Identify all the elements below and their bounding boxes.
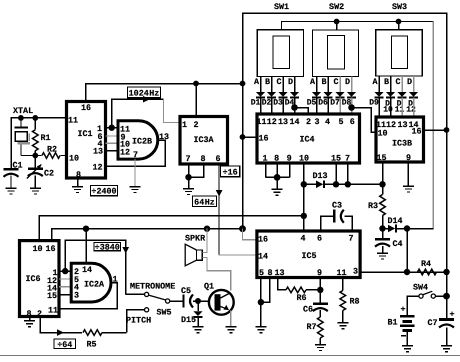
wire IC5 pin3 line [360,271,446,273]
svg-text:D5: D5 [307,99,317,108]
wire SW5 pole to C5 [170,300,183,302]
junction dot rail IC3A pin2 [193,81,199,87]
IC4 top pin6 label [350,117,355,127]
wire IC6 pin1 to IC2A pin2 [59,270,71,272]
capacitor C7 [427,310,454,346]
svg-text:÷3840: ÷3840 [95,243,120,253]
counter IC6 box [20,241,60,317]
terminal A of SW2 [310,77,317,93]
wire speaker top terminal [202,229,207,253]
svg-text:D14: D14 [388,216,403,226]
diode D1 [251,92,265,108]
wire IC3B pin15 down [382,162,384,195]
IC5 name [301,251,316,261]
wire IC6 pin16 supply line [52,229,243,241]
svg-text:5: 5 [259,268,264,278]
wire divide-3840 branch [65,240,129,294]
IC5 pin8 label [267,268,272,278]
svg-text:R7: R7 [307,322,317,332]
svg-text:D: D [288,77,293,87]
IC3B top pin12 label [386,120,396,130]
wire IC1 pin12 to IC2B output [106,140,166,166]
svg-text:+: + [400,305,405,315]
wire IC1 pin13 to IC2B pin12 [106,150,119,152]
svg-text:XTAL: XTAL [13,106,33,116]
wire IC4 bus to ground [276,177,278,189]
wire IC6 pin8 to ground [29,317,31,321]
junction dot D13 line IC4 pin7 [345,181,351,187]
IC4 top pin2 label [306,117,311,127]
svg-text:10: 10 [69,154,79,164]
diode D13 [304,171,328,188]
IC6 pin12 label [47,276,57,286]
resistor R2 [35,145,66,159]
svg-text:9: 9 [287,153,292,163]
capacitor C3 [321,201,353,232]
junction dot D14 node [404,225,410,231]
wire D8 node to IC3B pin10 [352,108,377,133]
IC2B pin11 label [120,124,130,134]
IC5 pin4 label [300,233,305,243]
svg-text:3: 3 [353,267,358,277]
wire SW3 top [398,22,400,30]
junction dot speaker tap [204,226,210,232]
IC6 pin11 label [48,306,58,316]
svg-text:13: 13 [397,120,407,130]
contact metronome circle [145,292,149,296]
wire IC3A pin7 down [188,164,190,189]
junction dot IC2A pin14 tap [83,226,89,232]
wire D1 cathode to IC pin [260,98,262,115]
IC1 pin8 label [76,170,81,180]
svg-text:7: 7 [345,153,350,163]
IC5 pin7 label [348,233,353,243]
svg-text:IC5: IC5 [301,251,316,261]
IC1 pin16 label [81,103,91,113]
junction dot pin10 D13 node [301,181,307,187]
switch SW4 [413,282,435,298]
IC3A pin8 label [200,154,205,164]
wire IC4 pin16 to left rail [243,136,258,138]
op IC1 box [67,102,106,179]
svg-text:IC3B: IC3B [392,139,412,149]
wire IC6 pin12 to IC2A pin5 [59,278,71,280]
ground Q1 emitter [225,327,236,333]
IC4 bottom pin1 label [262,153,267,163]
terminal D of SW1 [288,77,295,93]
wire SW2 top [336,22,338,31]
IC5 pin14 label [258,252,268,262]
IC2B name [132,137,152,147]
svg-text:C: C [333,77,338,87]
svg-text:D6: D6 [318,99,328,108]
ground IC2B pin7 [130,187,141,193]
wire IC5 pin11 down [342,278,344,291]
svg-text:4: 4 [300,233,305,243]
capacitor C2 trimmer [27,156,54,189]
gate IC2B [118,121,158,159]
wire D3 cathode to IC pin [282,98,284,115]
wire IC5 pin5 down [260,278,262,303]
diode D10 [383,92,395,115]
svg-text:2: 2 [193,120,198,130]
IC6 pin15 label [47,291,57,301]
switch SW1 label [274,2,289,12]
svg-text:IC1: IC1 [77,129,92,139]
IC3B top pin14 label [408,120,418,130]
wire IC6 pin15 to IC2A pin3 [59,294,71,296]
svg-text:R6: R6 [297,293,307,303]
svg-text:METRONOME: METRONOME [130,282,175,292]
wire pitch contact lead [127,310,145,333]
svg-text:C4: C4 [393,239,403,249]
wire IC4 pins 1-8-9 bus [266,163,290,177]
wire IC1 pin8 to ground [77,178,79,187]
terminal A of SW1 [254,77,261,93]
IC5 pin3 label [353,267,358,277]
wire metronome contact lead [126,293,145,295]
svg-text:13: 13 [93,146,103,156]
svg-text:SPKR: SPKR [185,233,206,243]
timer IC5 box [257,231,360,278]
label divide-64 box [54,339,76,350]
IC4 bottom pin7 label [345,153,350,163]
label divide-3840 box [94,243,121,253]
svg-text:IC3A: IC3A [193,135,214,145]
IC2A pin3 label [74,290,79,300]
svg-text:D7: D7 [330,99,340,108]
IC2A pin2 label [74,267,79,277]
label PITCH [126,315,151,325]
speaker SPKR symbol [185,244,202,266]
junction dot IC6 pin1 node [62,268,68,274]
IC4 bottom pin9 label [287,153,292,163]
wire C5 to Q1 base node [193,300,209,302]
svg-text:IC4: IC4 [299,135,314,145]
svg-text:B: B [321,77,326,87]
IC3B pin10 label [377,129,387,139]
wire pin5-8 to ground [260,302,262,327]
terminal B of SW3 [384,76,391,92]
svg-text:D2: D2 [262,99,272,108]
svg-text:12: 12 [92,163,102,173]
IC5 pin13 label [274,268,284,278]
IC4 pin16 label [258,134,268,144]
IC5 pin5 label [259,268,264,278]
IC6 pin10 label [32,244,42,254]
IC2B pin7 label [133,150,138,160]
ground IC3A pin7 [183,189,194,195]
wire D6 cathode to IC pin [327,98,329,115]
IC5 pin11 label [336,268,346,278]
wire R6 to pin9 node [306,289,320,291]
svg-text:14: 14 [289,117,299,127]
wire IC3B pin9 to ground [407,162,409,186]
svg-text:13: 13 [274,268,284,278]
diode D6 [318,92,332,108]
junction dot SW2 common [334,19,340,25]
resistor R4 [418,259,437,275]
svg-text:12: 12 [120,147,130,157]
svg-text:15: 15 [331,153,341,163]
diode D14 [383,216,403,232]
wire IC4 pin15 down [335,163,337,184]
counter IC4 box [257,114,360,163]
IC2A pin1 label [112,275,117,285]
IC2A pin14 label [82,265,92,275]
terminal B of SW2 [321,77,328,93]
wire IC3A pin2 to rail [195,84,197,117]
svg-text:C7: C7 [427,318,437,328]
IC1 pin10 label [69,154,79,164]
svg-text:16: 16 [81,103,91,113]
IC3B pin9 label [406,153,411,163]
junction dot R3 top node [379,181,385,187]
label METRONOME [130,282,175,292]
ground C4 [377,253,388,259]
svg-text:IC2A: IC2A [84,280,105,290]
junction dot crystal top [18,115,24,121]
wire 64Hz line to IC5 pin14 [219,254,257,255]
ground C1 [6,188,17,194]
wire IC3B pin16 to right rail [424,129,447,131]
resistor R1 [33,118,51,156]
svg-text:11: 11 [395,106,405,115]
svg-text:11: 11 [68,115,78,125]
svg-text:16: 16 [45,244,55,254]
ground C7 [441,346,452,352]
IC4 top pin13 label [278,117,288,127]
terminal C of SW1 [276,77,283,93]
IC3A pin1 label [182,120,187,130]
transistor Q1 [204,282,234,315]
svg-text:7: 7 [185,154,190,164]
capacitor C1 [4,161,23,189]
ground C2 [30,188,41,194]
IC2B pin10 label [120,140,130,150]
svg-text:R8: R8 [350,297,360,307]
svg-text:B: B [384,77,389,87]
svg-text:10: 10 [299,153,309,163]
wire IC5 pin9 down [319,278,321,290]
wire 1024Hz branch with arrow [112,96,164,128]
svg-text:16: 16 [258,235,268,245]
wire Q1 emitter to ground [230,311,232,327]
wire bottom border [0,355,460,357]
wire IC6 pin10 to IC5 pin4 line [39,216,304,241]
diode D5 [307,92,321,108]
IC2B pin13 label [159,132,169,142]
IC4 bottom pin15 label [331,153,341,163]
svg-text:9: 9 [406,153,411,163]
switch SW2 body [313,30,359,77]
junction dot IC5 pin16 tap [239,225,246,232]
svg-text:IC6: IC6 [25,274,40,284]
wire IC5 pin13 down [278,278,287,290]
wire D15 to ground [197,318,199,327]
svg-text:÷64: ÷64 [57,340,72,350]
IC4 name [299,135,314,145]
capacitor C6 [303,290,328,315]
ground B1 [402,346,413,352]
svg-text:3: 3 [314,117,319,127]
svg-text:11: 11 [256,117,266,127]
svg-text:R5: R5 [87,340,97,350]
label 64Hz box [193,196,217,207]
IC4 top pin11 label [256,117,266,127]
svg-text:14: 14 [82,265,92,275]
svg-text:11: 11 [48,306,58,316]
junction dot SW4 rail [443,293,450,300]
junction dot IC5 pin4 node [301,213,307,219]
junction dot D4 output node [291,104,298,111]
svg-text:10: 10 [32,244,42,254]
svg-text:15: 15 [376,153,386,163]
ground IC6 pin8 [24,321,35,327]
ground IC1 pin8 [72,187,83,193]
counter IC3B box [376,117,424,162]
svg-text:10: 10 [377,129,387,139]
wire 1024Hz branch to IC3A pin1 [164,99,180,122]
svg-text:6: 6 [317,233,322,243]
ground IC3B pin9 [403,186,414,192]
svg-text:8: 8 [274,153,279,163]
capacitor C4 [375,229,403,254]
wire IC3A pin6 64Hz line down [216,164,223,255]
IC4 bottom pin8 label [274,153,279,163]
wire D2 cathode to IC pin [271,98,273,115]
IC5 pin16 label [258,235,268,245]
svg-text:13: 13 [159,132,169,142]
wire IC4 pin7 down [347,163,349,184]
resistor R7 [307,310,324,345]
IC3A name [193,135,214,145]
wire D13 cathode line [325,183,383,185]
resistor R3 [368,195,385,229]
diode D7 [330,92,344,108]
svg-text:R4: R4 [421,259,431,269]
wire IC6 pin2 to R5 [40,317,82,336]
svg-text:5: 5 [338,117,343,127]
IC1 pin1 label [97,124,102,134]
wire SW4 to right rail [435,295,446,297]
svg-text:SW5: SW5 [156,308,171,318]
wire IC1 pin4 to IC2B pin10 [106,142,119,144]
junction dot rail right vertical [240,81,246,87]
wire speaker bottom terminal to Q1 collector [202,258,231,291]
svg-text:÷2400: ÷2400 [91,187,116,197]
junction dot R4 right rail [443,269,449,275]
IC6 pin2 label [37,309,42,319]
IC3B top pin11 label [376,120,386,130]
svg-text:SW1: SW1 [274,2,289,12]
IC6 name [25,274,40,284]
svg-text:SW3: SW3 [392,2,407,12]
IC4 top pin14 label [289,117,299,127]
wire D14 node down to R4 line [406,229,408,273]
svg-text:16: 16 [258,134,268,144]
svg-text:8: 8 [267,268,272,278]
svg-text:D: D [407,77,412,87]
wire D4 node to IC4 pin2 [295,108,309,115]
ground D15 [193,327,204,333]
svg-text:13: 13 [278,117,288,127]
junction dot IC3A pin7-8 [185,174,191,180]
terminal B of SW1 [265,77,272,93]
wire +V top rail from left vertical to right rail [243,13,447,319]
svg-text:C2: C2 [44,169,54,179]
wire D7 cathode to IC pin [339,98,341,115]
svg-text:PITCH: PITCH [126,315,151,325]
switch SW2 label [329,2,344,12]
svg-text:64 Hz: 64 Hz [194,197,215,207]
svg-text:SW4: SW4 [413,282,428,292]
IC1 pin6 label [97,132,102,142]
IC3A pin6 label [215,154,220,164]
IC2B pin9 label [120,132,125,142]
svg-text:1024 Hz: 1024 Hz [129,88,160,98]
svg-text:16: 16 [411,127,421,137]
svg-text:R1: R1 [41,133,51,143]
ground IC5 pin5-8 [255,327,266,333]
svg-text:D13: D13 [312,171,327,181]
wire IC3A pin8 jog [189,164,204,177]
wire D12 cathode to IC pin [413,98,415,118]
junction dot IC4 ground bus [274,174,281,181]
diode D15 [181,301,203,325]
diode D9 [369,92,383,108]
IC4 bottom pin10 label [299,153,309,163]
svg-text:7: 7 [133,150,138,160]
junction dot Q1 base node [195,298,201,304]
wire IC1 pin6 to IC2B pin9 [106,135,119,137]
IC5 pin6 label [317,233,322,243]
svg-text:C: C [276,77,281,87]
wire D14 node to switch common rail [407,228,433,230]
svg-text:D3: D3 [273,99,283,108]
IC1 pin11 label [68,115,78,125]
resistor R5 [83,330,102,350]
IC3B top pin13 label [397,120,407,130]
svg-text:1: 1 [262,153,267,163]
switch SW3 label [392,2,407,12]
svg-text:B: B [265,77,270,87]
label divide-16 box [221,166,240,177]
svg-text:15: 15 [47,291,57,301]
contact pitch circle [145,308,149,312]
junction dot R3 bottom node [379,225,385,231]
junction dot IC4 pin16 rail [240,134,246,140]
junction dot pin3 D14 node [404,269,410,275]
junction dot D13 line IC4 pin15 [333,181,339,187]
diode D11 [395,92,407,115]
IC3B name [392,139,412,149]
wire IC2A output to IC6 pin11 [59,283,117,309]
IC3B pin16 label [411,127,421,137]
svg-text:3: 3 [74,290,79,300]
wire IC4 pin10 down to IC5 pin4 [303,163,305,231]
svg-text:10: 10 [383,106,393,115]
ground IC4 [272,189,283,195]
counter IC3A box [180,117,228,165]
ground R8 [337,323,348,329]
svg-text:12: 12 [267,117,277,127]
resistor R6 [286,287,307,303]
IC1 name [77,129,92,139]
IC5 pin9 label [317,268,322,278]
terminal C of SW3 [395,76,402,92]
IC4 top pin12 label [267,117,277,127]
